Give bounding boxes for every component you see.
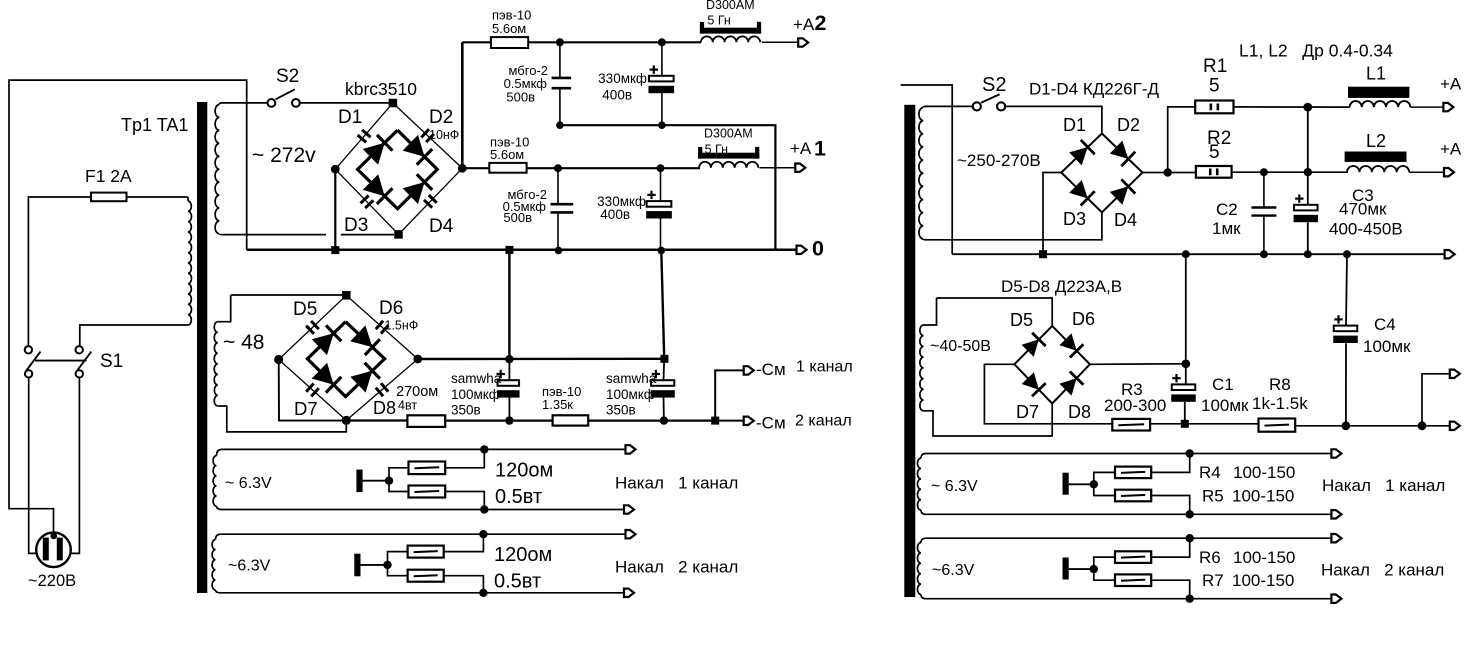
terminal heater1 bottom bbox=[624, 505, 634, 513]
label R1 5 bbox=[1209, 76, 1220, 97]
node rail x1347 bbox=[1343, 250, 1351, 258]
svg-text:1 канал: 1 канал bbox=[796, 359, 853, 376]
svg-text:Накал 1 канал: Накал 1 канал bbox=[615, 474, 738, 493]
svg-text:L1, L2 Др 0.4-0.34: L1, L2 Др 0.4-0.34 bbox=[1239, 41, 1393, 61]
label пэв-10 (bias) bbox=[542, 384, 581, 399]
resistor R1 5 bbox=[1195, 101, 1233, 114]
wire heater4 top bbox=[926, 537, 1331, 539]
label D300AM (ch1) bbox=[704, 126, 753, 140]
svg-text:S2: S2 bbox=[276, 66, 299, 87]
node 0 rail x509 bbox=[505, 246, 513, 254]
resistor R6 100-150 bbox=[1115, 551, 1151, 563]
resistor пэв-10 5.6ом (ch2) bbox=[491, 37, 528, 48]
svg-text:D8: D8 bbox=[373, 398, 396, 418]
diode D5 bbox=[312, 325, 342, 355]
label D3 (right) bbox=[1063, 209, 1086, 229]
svg-text:R8: R8 bbox=[1269, 375, 1291, 394]
terminal heater2 bottom bbox=[624, 589, 634, 597]
terminal heater2 top bbox=[626, 530, 636, 538]
label D4 bbox=[429, 216, 454, 237]
svg-text:D5: D5 bbox=[293, 299, 317, 320]
wire winding to bridge2 top (right) bbox=[937, 298, 1053, 326]
label мбго-2 (ch1) bbox=[508, 187, 547, 202]
choke L2 bbox=[1345, 152, 1410, 173]
capacitor C2 1мк bbox=[1251, 172, 1276, 254]
svg-text:F1 2A: F1 2A bbox=[85, 166, 132, 186]
ground heater2 bbox=[354, 554, 360, 577]
node C1 bottom bbox=[1181, 420, 1189, 428]
terminal heater1 top bbox=[626, 445, 636, 453]
diode D7 bbox=[312, 363, 342, 393]
label D6 (right) bbox=[1072, 309, 1095, 329]
svg-text:D4: D4 bbox=[1114, 210, 1137, 230]
capacitor 330мкф 400в (ch2) bbox=[648, 42, 674, 125]
diode D1 (right) bbox=[1069, 140, 1095, 166]
wire bridge2 right to C1 bbox=[1090, 363, 1186, 366]
wire heater4 R bottom bbox=[1094, 569, 1115, 580]
node 0 rail x661 bbox=[658, 247, 666, 255]
svg-text:500в: 500в bbox=[503, 210, 532, 225]
wire minus rail right bbox=[588, 420, 715, 422]
label 1.35к bbox=[542, 397, 573, 412]
node feed (right) bbox=[1164, 168, 1172, 176]
node minus rail x664 bbox=[660, 416, 668, 424]
wire R to choke ch1 bbox=[527, 167, 700, 169]
node heater3 bottom bbox=[1186, 510, 1194, 518]
label 500в (ch1) bbox=[503, 210, 532, 225]
diode D5 (right) bbox=[1022, 333, 1046, 357]
svg-text:D3: D3 bbox=[344, 215, 368, 236]
svg-text:~ 6.3V: ~ 6.3V bbox=[931, 478, 978, 495]
svg-text:0.5вт: 0.5вт bbox=[494, 571, 541, 593]
svg-text:D6: D6 bbox=[1072, 309, 1095, 329]
svg-text:1.35к: 1.35к bbox=[542, 397, 573, 412]
node out branch bbox=[1418, 421, 1427, 430]
node heater4 bottom bbox=[1186, 595, 1194, 603]
label R6 val bbox=[1233, 548, 1295, 567]
node C4 bottom bbox=[1342, 421, 1351, 430]
node ch1 a bbox=[554, 164, 562, 172]
diode D1 bbox=[363, 135, 393, 165]
svg-text:100-150: 100-150 bbox=[1233, 463, 1295, 482]
label C4 bbox=[1374, 315, 1396, 334]
svg-text:5 Гн: 5 Гн bbox=[705, 143, 728, 157]
svg-text:D1: D1 bbox=[338, 107, 362, 128]
wire L2 to +A bbox=[1409, 171, 1444, 173]
wire minus rail mid bbox=[445, 420, 552, 422]
resistor R2 5 bbox=[1196, 166, 1232, 178]
label L1 bbox=[1366, 64, 1386, 84]
node plus rail x664 bbox=[660, 355, 668, 363]
svg-text:400в: 400в bbox=[600, 207, 630, 222]
node bridge1 top bbox=[389, 99, 398, 108]
label R4 val bbox=[1233, 463, 1295, 482]
svg-text:D1: D1 bbox=[1063, 115, 1086, 135]
label D7 (right) bbox=[1016, 402, 1039, 422]
terminal +A 1 bbox=[795, 164, 805, 172]
svg-text:-См: -См bbox=[756, 414, 786, 433]
label ~ 6.3V (right 1) bbox=[931, 478, 978, 495]
label D1 (right) bbox=[1063, 115, 1086, 135]
label samwha (1) bbox=[451, 371, 502, 386]
snubber cap D7 bbox=[306, 384, 319, 397]
svg-text:350в: 350в bbox=[451, 403, 481, 418]
label R7 bbox=[1202, 571, 1224, 590]
fuse F1 2A bbox=[91, 193, 127, 202]
wire gnd4 to node bbox=[1069, 568, 1094, 570]
label ~ 6.3V (1) bbox=[225, 475, 272, 492]
svg-text:+A: +A bbox=[1440, 75, 1462, 94]
svg-text:5.6ом: 5.6ом bbox=[492, 21, 526, 36]
svg-text:0.5вт: 0.5вт bbox=[495, 486, 542, 508]
svg-text:Накал 2 канал: Накал 2 канал bbox=[1321, 561, 1444, 580]
node rail x1263 bbox=[1260, 250, 1268, 258]
node heater2 top bbox=[479, 530, 487, 538]
resistor 270ом 4вт bbox=[407, 415, 445, 427]
node minus rail x509 bbox=[505, 416, 513, 424]
svg-text:D300AM: D300AM bbox=[706, 0, 755, 12]
svg-text:C2: C2 bbox=[1216, 200, 1238, 219]
diode D4 bbox=[403, 174, 433, 204]
wire fuse to primary bbox=[127, 196, 189, 198]
wire to -Cм 2 канал bbox=[715, 420, 744, 422]
node plus rail x509 bbox=[505, 355, 513, 363]
choke L1 bbox=[1348, 87, 1410, 107]
wire R6 out bbox=[1151, 538, 1190, 557]
node heater1 bottom bbox=[480, 505, 488, 513]
wire bridge right to feed node bbox=[1143, 172, 1168, 174]
wire S2 to bridge top bbox=[300, 102, 393, 104]
label kbrc3510 bbox=[345, 79, 417, 99]
wire R2b to bottom bbox=[444, 576, 484, 593]
wire out branch up bbox=[1422, 374, 1450, 426]
terminal minus rail (right) bbox=[1445, 250, 1455, 258]
svg-text:10нФ: 10нФ bbox=[429, 128, 459, 142]
node heater3 mid bbox=[1090, 480, 1098, 488]
label D2 (right) bbox=[1117, 115, 1140, 135]
label 1 bbox=[814, 137, 826, 161]
svg-text:100-150: 100-150 bbox=[1232, 571, 1294, 590]
label 500в (ch2) bbox=[506, 90, 535, 105]
wire S1 to fuse bbox=[28, 197, 91, 346]
svg-text:kbrc3510: kbrc3510 bbox=[345, 79, 417, 99]
svg-text:330мкф: 330мкф bbox=[598, 71, 647, 86]
heater winding 4 ~6.3V bbox=[917, 538, 926, 599]
diode D4 (right) bbox=[1110, 179, 1136, 205]
svg-text:400в: 400в bbox=[602, 88, 632, 103]
label 0.5вт (2) bbox=[494, 571, 541, 593]
label 120ом (2) bbox=[494, 544, 552, 566]
wire plug left prong to S1 bbox=[29, 377, 37, 553]
svg-text:C4: C4 bbox=[1374, 315, 1396, 334]
wire R1b to bottom bbox=[445, 492, 484, 510]
wire heater2 R top bbox=[388, 552, 408, 565]
wire R2 to L2 bbox=[1232, 171, 1348, 173]
svg-text:Накал 1 канал: Накал 1 канал bbox=[1322, 476, 1445, 495]
svg-text:5: 5 bbox=[1209, 142, 1220, 163]
wire stub to minus rail (right) bbox=[901, 85, 953, 254]
diode D3 bbox=[363, 174, 393, 204]
label -См 1 канал bbox=[756, 359, 853, 380]
node ch2 a bbox=[556, 38, 564, 46]
primary winding bbox=[80, 197, 192, 346]
wire heater2 top bbox=[221, 533, 626, 535]
snubber cap D1 bbox=[358, 130, 371, 142]
wire R7 out bbox=[1151, 580, 1190, 599]
label L2 bbox=[1366, 131, 1386, 151]
svg-text:1.5нФ: 1.5нФ bbox=[385, 319, 419, 333]
choke D300AM ch2 bbox=[700, 22, 761, 42]
snubber cap D6 bbox=[376, 321, 389, 334]
capacitor 330мкф 400в (ch1) bbox=[646, 168, 672, 250]
label +A (ch1) bbox=[790, 139, 812, 158]
switch S1 (double pole) bbox=[25, 346, 92, 377]
svg-text:D4: D4 bbox=[429, 216, 454, 237]
node bridge2 top bbox=[342, 291, 351, 300]
wire to R ch1 bbox=[466, 167, 489, 169]
svg-text:R5: R5 bbox=[1202, 487, 1224, 506]
wire 0 rail down to minus rail a bbox=[508, 250, 510, 359]
label Накал 1 канал bbox=[615, 474, 738, 493]
svg-text:~ 6.3V: ~ 6.3V bbox=[225, 475, 272, 492]
node C1 top bbox=[1181, 359, 1190, 368]
svg-text:R4: R4 bbox=[1199, 463, 1221, 482]
node heater1 mid bbox=[385, 477, 393, 485]
wire gnd1 to node bbox=[363, 480, 389, 482]
label пэв-10 (ch1) bbox=[490, 135, 529, 150]
svg-text:D7: D7 bbox=[1016, 402, 1039, 422]
svg-text:1мк: 1мк bbox=[1212, 219, 1241, 238]
heater winding 3 ~ 6.3V bbox=[917, 454, 926, 515]
label Накал 2 канал bbox=[615, 558, 738, 577]
svg-text:~250-270В: ~250-270В bbox=[957, 151, 1041, 170]
label C2 1мк bbox=[1212, 219, 1241, 238]
svg-text:5: 5 bbox=[1209, 76, 1220, 97]
svg-text:R1: R1 bbox=[1203, 56, 1227, 77]
label D4 (right) bbox=[1114, 210, 1137, 230]
resistor 120ом (2a) bbox=[408, 546, 444, 558]
label ~6.3V (2) bbox=[228, 558, 271, 575]
label S2 (left) bbox=[276, 66, 299, 87]
wire S2 to bridge top (right) bbox=[1005, 106, 1102, 133]
svg-text:0: 0 bbox=[812, 237, 824, 261]
wire heater4 R top bbox=[1094, 557, 1115, 569]
wire heater2 bottom bbox=[221, 592, 624, 594]
wire bridge1 left to 0 rail bbox=[334, 169, 336, 250]
label C3 400-450В bbox=[1329, 220, 1403, 239]
svg-text:100мк: 100мк bbox=[1201, 396, 1249, 415]
label R4 bbox=[1199, 463, 1221, 482]
wire R1a to top bbox=[445, 449, 484, 467]
wire minus rail (right) bbox=[952, 253, 1444, 255]
wire R3 to R8 bbox=[1150, 423, 1258, 425]
svg-text:L2: L2 bbox=[1366, 131, 1386, 151]
snubber cap D8 bbox=[376, 383, 389, 396]
wire to R ch2 bbox=[462, 41, 491, 43]
label 5.6ом (ch2) bbox=[492, 21, 526, 36]
label пэв-10 (ch2) bbox=[492, 8, 531, 23]
ground heater3 bbox=[1063, 473, 1069, 495]
diode D2 bbox=[403, 135, 433, 165]
wire bridge left to rail (right) bbox=[1043, 173, 1061, 255]
node heater1 top bbox=[480, 445, 488, 453]
label S1 bbox=[100, 351, 123, 372]
svg-text:1: 1 bbox=[814, 137, 826, 161]
label ~6.3V (right 2) bbox=[932, 562, 975, 579]
diode D6 (right) bbox=[1059, 333, 1083, 357]
label D8 bbox=[373, 398, 396, 418]
capacitor samwha 100мкф 350в (1) bbox=[497, 359, 520, 420]
node C2 top bbox=[1260, 168, 1268, 176]
switch S2 (left) bbox=[268, 89, 300, 107]
svg-text:~6.3V: ~6.3V bbox=[228, 558, 271, 575]
node rail x1307 bbox=[1304, 250, 1312, 258]
label ~250-270В bbox=[957, 151, 1041, 170]
svg-text:D6: D6 bbox=[379, 298, 403, 319]
wire R8 to terminals bbox=[1295, 425, 1450, 427]
snubber cap D2 bbox=[421, 129, 434, 142]
svg-text:~6.3V: ~6.3V bbox=[932, 562, 975, 579]
terminal heater4 bottom bbox=[1331, 595, 1341, 603]
snubber cap D4 bbox=[424, 195, 437, 208]
node bridge1 bottom bbox=[394, 230, 403, 239]
svg-text:samwha: samwha bbox=[451, 371, 502, 386]
node L1 junction bbox=[1303, 103, 1312, 112]
wire C4 from rail bbox=[1346, 254, 1347, 325]
label R2 5 bbox=[1209, 142, 1220, 163]
label 270ом bbox=[396, 384, 438, 400]
svg-text:+A: +A bbox=[790, 139, 812, 158]
diode D8 (right) bbox=[1059, 372, 1083, 396]
label 330мкф (ch2) bbox=[598, 71, 647, 86]
label samwha (2) bbox=[606, 371, 657, 386]
label ~40-50В bbox=[930, 338, 991, 355]
label 4вт bbox=[398, 399, 417, 413]
svg-text:400-450В: 400-450В bbox=[1329, 220, 1403, 239]
node minus rail x715 bbox=[711, 417, 719, 425]
wire bridge1 + feed up bbox=[461, 42, 464, 168]
wire R4 out bbox=[1151, 454, 1190, 473]
label 10нФ bbox=[429, 128, 459, 142]
svg-text:2: 2 bbox=[815, 11, 827, 35]
svg-text:120ом: 120ом bbox=[495, 460, 553, 482]
wire bridge2 left out (right) bbox=[984, 364, 1112, 424]
diode D8 bbox=[350, 363, 380, 393]
label 0.5мкф (ch2) bbox=[504, 76, 548, 91]
secondary winding ~ 48 bbox=[214, 295, 347, 432]
svg-text:2 канал: 2 канал bbox=[795, 413, 852, 430]
node heater2 bottom bbox=[479, 589, 487, 597]
label +A (ch2) bbox=[793, 15, 815, 34]
wire heater1 R top bbox=[389, 468, 409, 481]
wire R2a to top bbox=[444, 534, 484, 551]
svg-text:L1: L1 bbox=[1366, 64, 1386, 84]
label D5 (right) bbox=[1010, 310, 1033, 330]
snubber cap D3 bbox=[361, 196, 374, 209]
svg-text:+A: +A bbox=[1440, 140, 1462, 159]
label C2 bbox=[1216, 200, 1238, 219]
wire winding to bridge bottom (right) bbox=[926, 212, 1102, 240]
heater winding 1 ~ 6.3V bbox=[213, 449, 222, 509]
svg-text:4вт: 4вт bbox=[398, 399, 417, 413]
label 0.5мкф (ch1) bbox=[503, 199, 547, 214]
label R5 val bbox=[1232, 487, 1294, 506]
terminal +A L1 bbox=[1443, 103, 1453, 111]
svg-text:D1-D4 КД226Г-Д: D1-D4 КД226Г-Д bbox=[1029, 80, 1159, 99]
label D5 bbox=[293, 299, 317, 320]
label R8 1k-1.5k bbox=[1252, 394, 1308, 413]
wire bridge2 left to minus rail bbox=[279, 360, 344, 421]
node x1307 r2row bbox=[1304, 168, 1312, 176]
wire heater1 R bottom bbox=[389, 481, 409, 492]
wire feed to R2 bbox=[1172, 172, 1196, 174]
resistor 120ом (2b) bbox=[408, 570, 444, 582]
label C1 100мк bbox=[1201, 396, 1249, 415]
label 100мкф (2) bbox=[606, 387, 655, 402]
wire winding to bridge2 top bbox=[231, 294, 347, 296]
wire heater1 top bbox=[222, 448, 626, 450]
svg-text:~220В: ~220В bbox=[28, 572, 76, 590]
label D2 bbox=[429, 107, 453, 128]
capacitor C4 100мк bbox=[1333, 315, 1358, 426]
label D1 bbox=[338, 107, 362, 128]
node 0 rail bridge- bbox=[331, 246, 339, 254]
secondary winding ~40-50В bbox=[920, 298, 1052, 436]
wire heater3 R top bbox=[1094, 472, 1115, 484]
svg-text:5 Гн: 5 Гн bbox=[707, 14, 730, 28]
terminal 0 bbox=[797, 246, 807, 254]
wire ch2 ground rail bbox=[558, 125, 775, 250]
node heater4 top bbox=[1186, 534, 1194, 542]
svg-text:120ом: 120ом bbox=[494, 544, 552, 566]
terminal +A L2 bbox=[1444, 168, 1454, 176]
transformer Tp1 TA1 core bbox=[197, 102, 207, 593]
svg-text:100мкф: 100мкф bbox=[606, 387, 655, 402]
label C4 100мк bbox=[1363, 337, 1411, 356]
svg-text:-См: -См bbox=[756, 360, 786, 379]
label D1-D4 КД226Г-Д bbox=[1029, 80, 1159, 99]
choke D300AM ch1 bbox=[698, 147, 759, 168]
node bridge2 right bbox=[413, 355, 422, 364]
node heater3 top bbox=[1186, 449, 1194, 457]
resistor R4 100-150 bbox=[1115, 467, 1151, 479]
secondary winding ~272v bbox=[215, 103, 267, 235]
capacitor C3 470мк bbox=[1294, 107, 1319, 254]
bridge D1-D4 diamond (right) bbox=[1061, 134, 1142, 213]
bridge D5-D8 diamond (right) bbox=[1014, 326, 1090, 404]
ground heater1 bbox=[356, 470, 362, 493]
svg-text:~40-50В: ~40-50В bbox=[930, 338, 991, 355]
label 350в (1) bbox=[451, 403, 481, 418]
svg-text:D5: D5 bbox=[1010, 310, 1033, 330]
svg-text:Накал 2 канал: Накал 2 канал bbox=[615, 558, 738, 577]
label мбго-2 (ch2) bbox=[509, 63, 548, 78]
capacitor мбго-2 (ch2) bbox=[552, 42, 572, 125]
svg-text:100-150: 100-150 bbox=[1233, 548, 1295, 567]
label R5 bbox=[1202, 487, 1224, 506]
wire choke to +A1 bbox=[760, 167, 796, 169]
heater winding 2 ~6.3V bbox=[212, 534, 221, 593]
label S2 (right) bbox=[982, 74, 1006, 96]
svg-text:D8: D8 bbox=[1068, 402, 1091, 422]
node heater4 mid bbox=[1090, 565, 1098, 573]
node ch2 d bbox=[658, 121, 666, 129]
label 5.6ом (ch1) bbox=[490, 147, 524, 162]
label R2 bbox=[1207, 128, 1231, 149]
svg-text:S1: S1 bbox=[100, 351, 123, 372]
wire heater4 bottom bbox=[926, 598, 1331, 600]
wire plug right prong to S1 bbox=[71, 377, 80, 553]
